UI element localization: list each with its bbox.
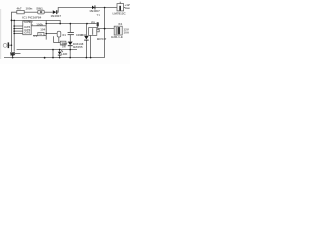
svg-text:BC547: BC547	[97, 37, 107, 41]
svg-text:10A: 10A	[124, 30, 130, 34]
svg-text:25V: 25V	[81, 33, 86, 37]
svg-text:LM7812C: LM7812C	[113, 12, 127, 16]
svg-text:2: 2	[32, 22, 34, 24]
svg-text:max: max	[125, 6, 130, 10]
svg-text:R5: R5	[91, 21, 95, 25]
svg-text:100k: 100k	[36, 23, 43, 27]
svg-text:BZX55: BZX55	[73, 45, 83, 49]
svg-text:104: 104	[40, 28, 45, 32]
svg-text:1W: 1W	[62, 45, 66, 48]
svg-text:K1: K1	[119, 22, 123, 26]
svg-text:1N4007: 1N4007	[89, 9, 100, 13]
svg-text:GP2: GP2	[24, 31, 30, 35]
svg-text:IC1 PIC16F84: IC1 PIC16F84	[22, 15, 41, 19]
svg-text:X1: X1	[62, 33, 66, 37]
svg-text:GP5: GP5	[24, 20, 30, 24]
svg-text:1N4007: 1N4007	[51, 14, 62, 18]
svg-text:LED: LED	[61, 52, 68, 56]
svg-text:T1: T1	[97, 13, 101, 17]
svg-text:100n: 100n	[26, 7, 33, 11]
svg-text:4k7: 4k7	[17, 7, 22, 11]
svg-text:G2R-1-E: G2R-1-E	[111, 35, 123, 39]
svg-text:5.1: 5.1	[33, 34, 38, 38]
svg-text:SW1: SW1	[36, 6, 43, 10]
